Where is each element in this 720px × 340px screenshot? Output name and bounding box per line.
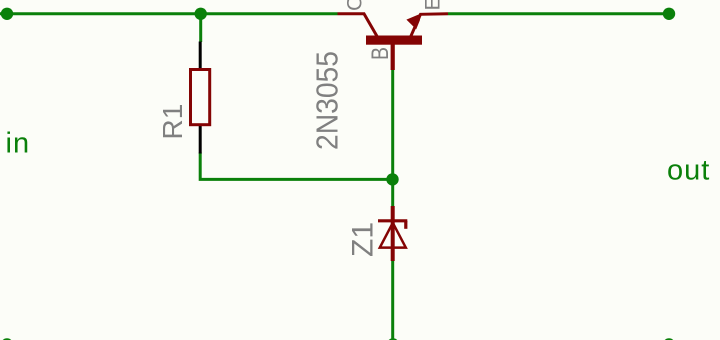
svg-text:2N3055: 2N3055 (310, 51, 345, 150)
svg-text:C: C (343, 0, 367, 11)
svg-text:in: in (6, 128, 31, 160)
svg-text:R1: R1 (157, 104, 188, 140)
svg-text:B: B (367, 47, 394, 60)
svg-text:E: E (421, 0, 445, 11)
svg-text:out: out (667, 155, 710, 187)
svg-text:Z1: Z1 (347, 222, 380, 257)
